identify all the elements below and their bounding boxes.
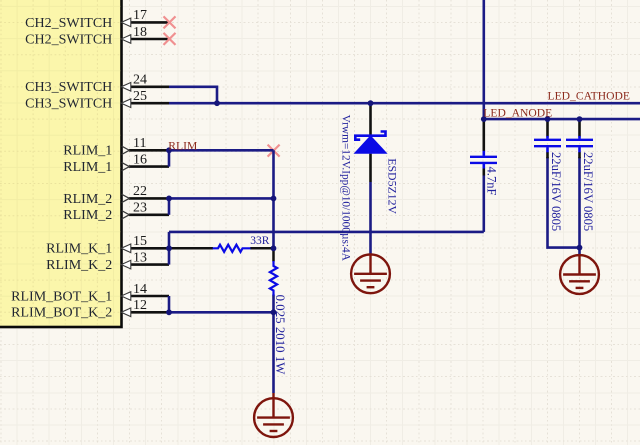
svg-text:LED_CATHODE: LED_CATHODE [548,90,630,103]
pin 15 RLIM_K_1 [46,234,169,257]
svg-text:33R: 33R [250,235,269,247]
svg-text:RLIM_K_2: RLIM_K_2 [46,258,112,273]
svg-text:ESD5Z12V: ESD5Z12V [385,158,399,214]
svg-text:22uF/16V 0805: 22uF/16V 0805 [581,152,595,231]
no-ERC marker on pin 18 [164,33,176,45]
junction at 169,312.3 [166,309,172,315]
junction at 370.5,103.2 [368,100,374,106]
junction at 169,198.4 [166,196,172,202]
pin 22 RLIM_2 [63,184,169,207]
svg-text:Vrwm=12V.Ipp@10/1000µs:4A: Vrwm=12V.Ipp@10/1000µs:4A [339,115,351,262]
wire RLIM_K horizontal to C 4.7nF [169,231,484,234]
wire net LED_CATHODE horizontal [169,102,640,105]
junction at 273.5,312.3 [271,309,277,315]
capacitor C1 22uF/16V 0805 [534,119,563,231]
svg-text:RLIM_BOT_K_1: RLIM_BOT_K_1 [11,289,112,304]
pin 13 RLIM_K_2 [46,250,169,273]
wire net LED_ANODE horizontal [484,118,640,121]
svg-text:RLIM_K_1: RLIM_K_1 [46,242,112,257]
svg-text:LED_ANODE: LED_ANODE [483,107,552,120]
ground (R2) [254,393,293,437]
svg-text:RLIM: RLIM [168,139,197,152]
wire pin22 to RLIM vertical [169,197,274,200]
svg-text:12: 12 [133,298,147,313]
wire D1 cathode to ground [369,182,372,256]
pin 23 RLIM_2 [63,201,169,224]
svg-text:22: 22 [133,184,147,199]
svg-text:17: 17 [133,8,147,23]
wire pin24 to pin25 net [169,87,217,103]
svg-text:RLIM_2: RLIM_2 [63,192,112,207]
wire C1 bottom jog [548,157,580,248]
junction at 579.5,247.6 [577,245,583,251]
svg-text:24: 24 [133,73,147,88]
svg-text:RLIM_BOT_K_2: RLIM_BOT_K_2 [11,306,112,321]
capacitor C2 22uF/16V 0805 [566,119,595,231]
pin 24 CH3_SWITCH [25,73,169,96]
junction at 483.8,119.1 [481,116,487,122]
wire pin15 to pin13 riser [168,232,171,265]
svg-text:4.7nF: 4.7nF [484,167,498,196]
junction at 579.5,119.1 [577,116,583,122]
wire pin22 to pin23 [168,198,171,214]
wire pin11 to pin16 [168,150,171,166]
wire net RLIM vertical [272,150,275,248]
junction at 273.5,248.3 [271,245,277,251]
wire net RLIM horizontal [169,149,274,152]
svg-text:16: 16 [133,152,147,167]
capacitor C3 4.7nF [470,119,498,195]
resistor R1 33R [169,235,274,252]
svg-text:23: 23 [133,201,147,216]
ground (C1 C2) [560,255,599,294]
svg-text:CH3_SWITCH: CH3_SWITCH [25,97,112,112]
resistor R2 0.025 2010 1W [270,248,287,375]
no-ERC marker on net RLIM [268,145,280,157]
junction at 547.5,119.1 [545,116,551,122]
pin 12 RLIM_BOT_K_2 [11,298,169,321]
diode D1 ESD5Z12V (TVS) [354,103,388,182]
svg-text:CH2_SWITCH: CH2_SWITCH [25,16,112,31]
svg-text:15: 15 [133,234,147,249]
junction at 273.5,198.4 [271,196,277,202]
no-ERC marker on pin 17 [164,16,176,28]
svg-text:RLIM_2: RLIM_2 [63,208,112,223]
svg-text:14: 14 [133,282,147,297]
svg-text:CH2_SWITCH: CH2_SWITCH [25,32,112,47]
wire C2 bottom to ground [578,157,581,256]
svg-text:0.025 2010 1W: 0.025 2010 1W [273,295,287,376]
svg-text:13: 13 [133,250,147,265]
svg-text:11: 11 [133,136,146,151]
svg-text:RLIM_1: RLIM_1 [63,160,112,175]
svg-text:RLIM_1: RLIM_1 [63,144,112,159]
pin 25 CH3_SWITCH [25,89,169,112]
pin 18 CH2_SWITCH [25,25,169,48]
junction at 217,103.2 [214,100,220,106]
svg-text:18: 18 [133,25,147,40]
pin 11 RLIM_1 [63,136,169,159]
svg-text:25: 25 [133,89,147,104]
wire vertical from top edge [482,0,485,119]
wire C 4.7nF bottom riser [482,175,485,232]
component body U1 [0,0,122,327]
wire R2 bottom to ground [272,295,275,394]
pin 16 RLIM_1 [63,152,169,175]
svg-text:CH3_SWITCH: CH3_SWITCH [25,80,112,95]
pin 14 RLIM_BOT_K_1 [11,282,169,305]
ground (D1) [351,254,390,293]
junction at 169,248.3 [166,245,172,251]
svg-text:22uF/16V 0805: 22uF/16V 0805 [549,152,563,231]
wire pin12 horizontal [169,311,274,314]
pin 17 CH2_SWITCH [25,8,169,31]
junction at 169,150.3 [166,147,172,153]
wire pin14 riser [168,296,171,312]
